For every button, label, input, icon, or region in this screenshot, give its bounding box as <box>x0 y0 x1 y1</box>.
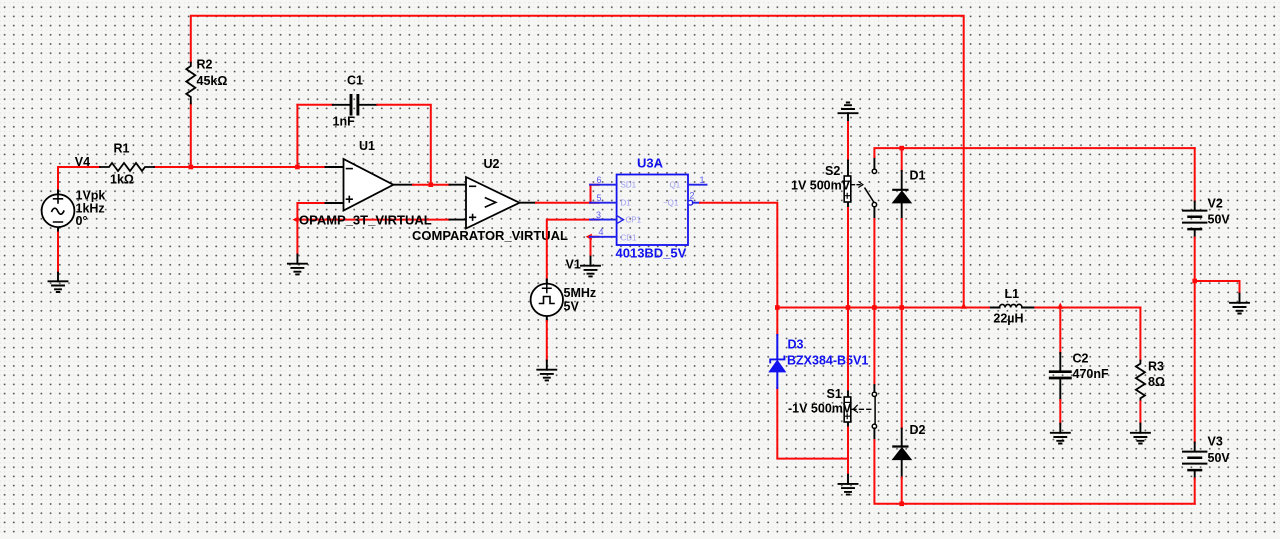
wire C2 to ground <box>1059 400 1061 424</box>
node junction R2/main <box>189 165 194 170</box>
comparator U2 output stub <box>520 202 537 204</box>
ground C2 <box>1051 424 1070 444</box>
wire R2 bottom lead to main node <box>190 104 192 169</box>
op-amp U1 output stub <box>393 184 413 186</box>
wire ~Q1 to bridge midpoint <box>700 203 777 335</box>
svg-text:COMPARATOR_VIRTUAL: COMPARATOR_VIRTUAL <box>412 228 568 243</box>
svg-text:CP1: CP1 <box>626 216 642 225</box>
wire top rail to V2 <box>1194 148 1196 201</box>
wire C1 branch vertical <box>296 105 298 166</box>
wire mid bus to L1 <box>777 307 1140 309</box>
svg-text:S1: S1 <box>827 387 842 401</box>
svg-text:U3A: U3A <box>637 155 664 170</box>
svg-text:~Q1: ~Q1 <box>663 198 679 207</box>
svg-text:4013BD_5V: 4013BD_5V <box>616 246 687 261</box>
diode D2 <box>893 429 912 478</box>
node junction toprail/D1 <box>899 146 904 151</box>
wire pin6-pin5 tie <box>591 185 599 203</box>
node arrow junction plus net <box>292 216 298 222</box>
wire S1 bottom contact to bottom rail <box>874 440 1194 504</box>
capacitor C1 <box>333 96 378 115</box>
svg-text:D3: D3 <box>788 338 804 352</box>
wire L1 junction to C2 <box>1059 308 1061 354</box>
svg-text:U1: U1 <box>359 139 375 153</box>
svg-text:L1: L1 <box>1005 287 1020 301</box>
comparator U2 input stubs <box>450 185 467 220</box>
svg-text:R2: R2 <box>197 58 213 72</box>
svg-text:Q1: Q1 <box>670 180 681 189</box>
svg-text:-1V 500mV: -1V 500mV <box>788 402 852 416</box>
svg-text:D1: D1 <box>621 198 632 207</box>
svg-text:D2: D2 <box>910 423 926 437</box>
ground S1 <box>839 475 858 495</box>
pin 3 CP1 clock <box>590 219 617 221</box>
pin 1 Q1 <box>688 184 707 186</box>
ground pin4 <box>581 257 600 277</box>
svg-text:5V: 5V <box>564 300 580 314</box>
svg-text:R3: R3 <box>1148 360 1164 374</box>
svg-text:5: 5 <box>597 193 602 203</box>
wire V1 bottom to ground <box>546 321 548 361</box>
wire branch to right ground <box>1195 281 1240 294</box>
node junction midbus/S-control <box>846 305 851 310</box>
svg-text:SD1: SD1 <box>621 180 637 189</box>
svg-text:OPAMP_3T_VIRTUAL: OPAMP_3T_VIRTUAL <box>299 213 432 228</box>
svg-text:CD1: CD1 <box>621 233 638 242</box>
battery V3 <box>1183 443 1206 479</box>
svg-text:22µH: 22µH <box>993 312 1023 326</box>
wire R3 to ground <box>1139 402 1141 424</box>
wire midbus corner down to R3 <box>1139 308 1141 361</box>
svg-text:R1: R1 <box>114 142 130 156</box>
svg-text:8Ω: 8Ω <box>1148 375 1165 389</box>
wire D2 to bottom rail <box>901 478 903 504</box>
inductor L1 <box>991 304 1034 307</box>
node junction midbus/contacts <box>872 305 877 310</box>
wire D1 bottom to midbus <box>901 219 903 308</box>
wire U1 plus-input branch <box>297 203 325 255</box>
pin 4 CD1 <box>590 236 617 238</box>
svg-text:50V: 50V <box>1208 213 1231 227</box>
switch S2 contacts <box>872 157 876 219</box>
wire D3 bottom to S1 ground net <box>777 388 848 459</box>
svg-text:S2: S2 <box>825 164 840 178</box>
wire S2 top contact to top rail corner <box>874 148 1194 157</box>
node junction C1-branch/main <box>295 165 300 170</box>
ground R3 <box>1131 424 1150 444</box>
svg-text:0°: 0° <box>76 214 88 228</box>
ground right <box>1230 294 1249 314</box>
pin 6 SD1 <box>590 184 617 186</box>
wire V4 top lead <box>57 167 59 191</box>
resistor R3 <box>1136 361 1145 402</box>
svg-text:U2: U2 <box>484 157 500 171</box>
ground V4 <box>49 273 68 293</box>
source V1 body <box>531 280 563 322</box>
resistor R1 <box>100 163 154 171</box>
switch S1 contacts closed <box>872 385 876 440</box>
svg-text:4: 4 <box>599 227 604 237</box>
svg-text:45kΩ: 45kΩ <box>197 74 228 88</box>
switch S2 control box <box>844 161 851 209</box>
svg-text:BZX384-B5V1: BZX384-B5V1 <box>787 353 868 367</box>
resistor R2 <box>186 63 195 104</box>
svg-text:C2: C2 <box>1073 352 1089 366</box>
wire S1 control to ground <box>847 428 849 475</box>
switch S1 dashed link <box>852 405 872 412</box>
wire pin4 to ground <box>591 237 599 257</box>
svg-text:1V 500mV: 1V 500mV <box>791 179 851 193</box>
wire V4 bottom to ground <box>57 233 59 273</box>
node junction V2minus/groundbranch <box>1192 279 1197 284</box>
node junction midbus/D1-D2 <box>899 305 904 310</box>
node junction C1/U1-output <box>429 182 434 187</box>
wire S2 bottom contact down to midbus and S1 <box>873 219 875 385</box>
svg-text:2: 2 <box>690 190 695 200</box>
node junction midbus/D3 <box>775 305 780 310</box>
ground flipped above S2 <box>839 103 858 123</box>
node arrow junction midbus/feedback <box>961 303 967 309</box>
capacitor C2 <box>1050 353 1070 400</box>
svg-text:1: 1 <box>700 175 705 185</box>
pin 5 D1 <box>590 202 617 204</box>
svg-text:5MHz: 5MHz <box>564 286 597 300</box>
wire midbus to D2 <box>901 308 903 429</box>
svg-text:50V: 50V <box>1208 451 1231 465</box>
ground U1 plus <box>288 255 307 275</box>
wire top feedback rail <box>191 16 964 308</box>
svg-text:V1: V1 <box>566 258 581 272</box>
wire U1 output to U2 minus <box>413 184 450 186</box>
wire main input net V4-R1-U1 <box>58 166 326 168</box>
pin 2 ~Q1 with bubble <box>688 200 693 205</box>
wire C1 right to U1 output <box>377 105 430 185</box>
op-amp U1 <box>344 159 394 211</box>
wire V2 bottom rail down to V3 <box>1194 238 1196 443</box>
svg-text:1kΩ: 1kΩ <box>110 173 134 187</box>
source V4 body <box>42 191 75 233</box>
node arrow junction midbus/C2 <box>1057 303 1063 309</box>
switch S2 dashed link and arm <box>852 182 875 203</box>
zener D3 <box>769 335 785 388</box>
comparator U2 <box>466 177 520 229</box>
svg-text:D1: D1 <box>910 168 926 182</box>
svg-text:V2: V2 <box>1208 197 1223 211</box>
svg-text:C1: C1 <box>347 74 363 88</box>
svg-text:470nF: 470nF <box>1073 367 1109 381</box>
wire V1 to clock pin3 <box>547 220 599 280</box>
wire opamp-plus long net to U2 <box>297 219 449 221</box>
node junction bottomrail/D2 <box>899 502 904 507</box>
flip-flop U3A box <box>617 175 688 246</box>
svg-text:3: 3 <box>596 210 601 220</box>
svg-text:6: 6 <box>597 175 602 185</box>
ground V1 <box>537 361 556 381</box>
wire U2 output to U3A pin5 <box>536 202 599 204</box>
switch S1 control box <box>844 392 851 428</box>
battery V2 <box>1183 202 1206 238</box>
op-amp U1 input stubs <box>326 167 344 203</box>
svg-text:1nF: 1nF <box>333 115 356 129</box>
node arrow junction pin4 <box>586 234 592 240</box>
wire V3 bottom to bottom rail <box>1194 479 1196 504</box>
wire S2 control to S1 control <box>847 208 849 392</box>
diode D1 <box>893 148 912 219</box>
wire C1 left lead red <box>297 104 332 106</box>
svg-text:V4: V4 <box>75 155 90 169</box>
svg-text:V3: V3 <box>1208 435 1223 449</box>
wire S2 control top <box>847 122 849 161</box>
